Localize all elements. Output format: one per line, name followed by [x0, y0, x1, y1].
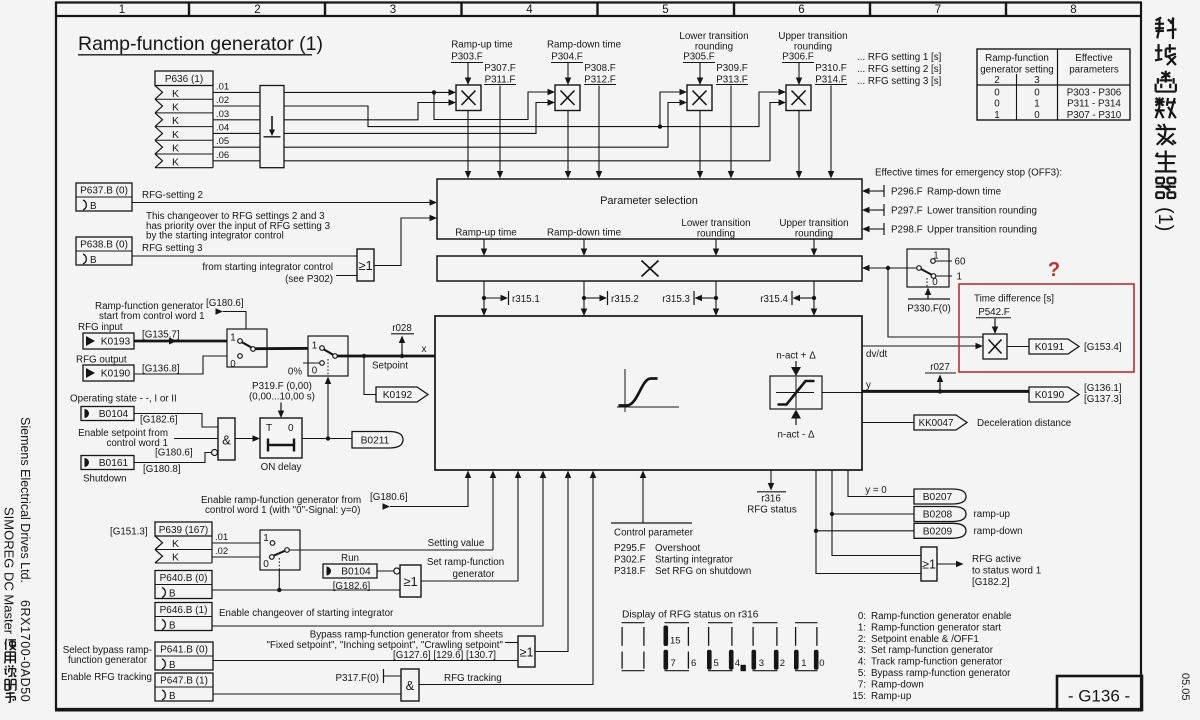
- svg-text:05.05: 05.05: [1179, 673, 1191, 701]
- wire GA to ON delay: [235, 435, 260, 442]
- svg-text:B: B: [90, 255, 97, 266]
- svg-text:Lower transition: Lower transition: [679, 31, 748, 42]
- connector block P639 (167): [155, 522, 212, 564]
- wire G4 to RFG box: [419, 471, 596, 685]
- label G182.6 run: [333, 581, 371, 592]
- svg-text:r315.1: r315.1: [512, 294, 540, 305]
- svg-text:P646.B (1): P646.B (1): [160, 605, 208, 616]
- svg-text:P306.F: P306.F: [782, 52, 814, 63]
- label select bypass: [63, 645, 152, 666]
- svg-text:RFG setting 3: RFG setting 3: [142, 243, 203, 254]
- svg-text:P298.F: P298.F: [891, 224, 923, 235]
- svg-text:K0191: K0191: [1035, 342, 1065, 353]
- wire P646 to RFG box: [212, 471, 546, 627]
- svg-text:Set RFG on shutdown: Set RFG on shutdown: [655, 566, 751, 577]
- svg-text:x: x: [422, 344, 427, 355]
- svg-text:3: 3: [390, 4, 396, 16]
- svg-text:0: 0: [263, 559, 269, 570]
- or-gate G3: [518, 636, 535, 667]
- svg-text:[G153.4]: [G153.4]: [1084, 342, 1122, 353]
- svg-text:1: 1: [801, 658, 806, 669]
- label G180.8: [143, 464, 181, 475]
- label P319.F: [249, 381, 315, 403]
- binector input P640.B (0): [155, 571, 212, 600]
- thick wire S1 to S2: [255, 347, 319, 350]
- svg-text:from starting integrator contr: from starting integrator control: [202, 262, 333, 273]
- or-gate G1: [357, 249, 374, 281]
- label upper transition rounding P306.F P310.F P314.F: [778, 31, 847, 179]
- svg-text:.06: .06: [216, 150, 229, 161]
- svg-text:.05: .05: [216, 136, 229, 147]
- binector output B0209: [914, 523, 1023, 538]
- label RFG input: [78, 322, 180, 341]
- label x: [422, 344, 427, 355]
- svg-text:Parameter selection: Parameter selection: [600, 195, 698, 207]
- wire P319 to ON delay: [278, 403, 285, 419]
- svg-text:15:: 15:: [852, 691, 866, 702]
- svg-text:7: 7: [671, 658, 676, 669]
- svg-text:0: 0: [312, 366, 318, 377]
- multiplier M3 lower transition rounding: [687, 85, 712, 111]
- svg-text:K0193: K0193: [101, 337, 131, 348]
- svg-text:B0208: B0208: [923, 510, 953, 521]
- svg-text:r027: r027: [930, 362, 950, 373]
- svg-text:.02: .02: [215, 546, 228, 557]
- svg-text:r315.4: r315.4: [760, 294, 788, 305]
- svg-text:Ramp-function: Ramp-function: [985, 53, 1049, 64]
- svg-text:Starting integrator: Starting integrator: [655, 555, 734, 566]
- connector output KK0047: [914, 415, 967, 430]
- svg-text:1: 1: [957, 271, 962, 282]
- svg-text:Ramp-up time: Ramp-up time: [455, 228, 517, 239]
- label Run: [341, 553, 359, 564]
- svg-text:start from control word 1: start from control word 1: [99, 311, 205, 322]
- binector input B0104: [81, 407, 134, 421]
- svg-text:Enable changeover of starting: Enable changeover of starting integrator: [219, 608, 394, 619]
- wire control word start to switch S1: [216, 308, 247, 340]
- svg-text:0: 0: [288, 423, 294, 434]
- sheet number box G136: [1057, 676, 1142, 710]
- svg-text:[G136.8]: [G136.8]: [142, 364, 180, 375]
- svg-text:P637.B (0): P637.B (0): [80, 186, 128, 197]
- svg-text:[G180.6]: [G180.6]: [370, 492, 408, 503]
- svg-text:P297.F: P297.F: [891, 205, 923, 216]
- and-gate GA: [218, 418, 235, 460]
- multiplier box (time scaling): [437, 256, 862, 281]
- svg-text:K0190: K0190: [101, 369, 131, 380]
- svg-text:B0211: B0211: [361, 435, 390, 446]
- svg-text:[G137.3]: [G137.3]: [1084, 394, 1122, 405]
- svg-text:?: ?: [1048, 259, 1060, 281]
- wire G3 to RFG box: [535, 471, 571, 652]
- svg-text:Shutdown: Shutdown: [83, 474, 127, 485]
- connector input K0193: [83, 333, 134, 349]
- svg-text:SIMOREG DC Master: SIMOREG DC Master: [2, 507, 17, 635]
- svg-text:Set ramp-function: Set ramp-function: [427, 557, 504, 568]
- svg-text:ramp-down: ramp-down: [974, 526, 1023, 537]
- connector input K0190: [83, 365, 134, 381]
- binector output B0207: [914, 489, 966, 504]
- svg-text:RFG-setting 2: RFG-setting 2: [142, 190, 203, 201]
- wire switch to multiplier box: [862, 265, 917, 272]
- svg-text:ramp-up: ramp-up: [974, 509, 1011, 520]
- svg-text:P302.F: P302.F: [614, 555, 646, 566]
- label RFG active: [972, 554, 1041, 588]
- svg-text:K0190: K0190: [1035, 390, 1065, 401]
- svg-text:Ramp-down: Ramp-down: [871, 679, 924, 690]
- svg-text:3: 3: [1034, 75, 1040, 86]
- svg-text:RFG tracking: RFG tracking: [444, 673, 502, 684]
- wire G1 to parameter selection: [374, 215, 437, 266]
- svg-text:r316: r316: [761, 494, 781, 505]
- svg-text:[G182.2]: [G182.2]: [972, 577, 1010, 588]
- emergency stop effective times P296.F P297.F P298.F: [862, 168, 1062, 236]
- svg-text:B: B: [169, 660, 176, 671]
- label Shutdown: [83, 474, 127, 485]
- label G151.3: [110, 527, 148, 538]
- svg-text:2:: 2:: [858, 634, 866, 645]
- svg-text:P640.B (0): P640.B (0): [160, 573, 208, 584]
- svg-text:by the starting integrator con: by the starting integrator control: [146, 231, 284, 242]
- svg-text:P304.F: P304.F: [551, 52, 583, 63]
- svg-text:P311.F: P311.F: [485, 75, 516, 86]
- wires P636 to selector: [213, 92, 260, 160]
- svg-text:Upper transition rounding: Upper transition rounding: [927, 224, 1037, 235]
- label enable setpoint: [78, 428, 168, 449]
- svg-text:Time difference [s]: Time difference [s]: [974, 294, 1054, 305]
- svg-text:60: 60: [955, 256, 966, 267]
- svg-text:to status word 1: to status word 1: [972, 566, 1041, 577]
- wire RFG-setting 2: [132, 190, 437, 206]
- svg-text:rounding: rounding: [697, 229, 735, 240]
- svg-text:P311 - P314: P311 - P314: [1067, 99, 1121, 110]
- svg-text:≥1: ≥1: [403, 574, 417, 589]
- svg-text:7:: 7:: [858, 679, 866, 690]
- svg-text:0: 0: [230, 359, 236, 370]
- wire ON delay to S2 control: [325, 377, 332, 439]
- svg-text:K: K: [172, 115, 179, 127]
- svg-text:KK0047: KK0047: [919, 418, 954, 429]
- connector output K0190 out: [1029, 387, 1079, 402]
- svg-text:P314.F: P314.F: [815, 75, 847, 86]
- display tap r028: [391, 323, 414, 354]
- svg-text:Track ramp-function generator: Track ramp-function generator: [871, 657, 1003, 668]
- label n-act - delta: [777, 410, 814, 441]
- svg-text:P307 - P310: P307 - P310: [1067, 110, 1122, 121]
- svg-text:[G180.6]: [G180.6]: [155, 448, 193, 459]
- svg-text:≥1: ≥1: [520, 646, 534, 660]
- binector output B0208: [914, 507, 1011, 522]
- svg-text:r315.3: r315.3: [662, 294, 690, 305]
- svg-text:0: 0: [1034, 88, 1040, 99]
- svg-text:parameters: parameters: [1069, 65, 1119, 76]
- connector output K0191: [1029, 339, 1079, 354]
- svg-text:Lower transition: Lower transition: [681, 218, 750, 229]
- svg-text:T: T: [266, 423, 272, 434]
- svg-text:RFG active: RFG active: [972, 554, 1022, 565]
- svg-text:P307.F: P307.F: [484, 63, 516, 74]
- binector input P637.B (0): [76, 183, 132, 212]
- labels RFG setting 1-3: [857, 52, 942, 87]
- wire ramp-down to B0209: [814, 470, 914, 533]
- binector output B0211: [352, 432, 403, 449]
- svg-text:y: y: [866, 380, 871, 391]
- connector block P636 (1) with K inputs .01-.06: [155, 71, 213, 168]
- label ON delay: [261, 462, 302, 473]
- svg-text:Bypass ramp-function generator: Bypass ramp-function generator: [871, 668, 1011, 679]
- wires parameter selection to multiplier box: [481, 239, 818, 256]
- note changeover priority: [146, 211, 331, 242]
- binector input P647.B (1): [155, 673, 213, 702]
- svg-text:1:: 1:: [858, 622, 866, 633]
- svg-text:15: 15: [670, 635, 681, 646]
- svg-text:K0192: K0192: [383, 390, 413, 401]
- s-curve symbol: [617, 369, 679, 412]
- label ramp-down time P304.F P308.F P312.F: [547, 40, 622, 179]
- svg-text:5: 5: [714, 658, 719, 669]
- svg-text:P319.F (0,00): P319.F (0,00): [252, 381, 312, 392]
- svg-text:P296.F: P296.F: [891, 186, 923, 197]
- thick output wire y: [862, 380, 1029, 391]
- svg-text:K: K: [172, 538, 179, 550]
- svg-text:K: K: [172, 552, 179, 564]
- bottom right edition 05.05: [1179, 673, 1191, 701]
- svg-text:&: &: [222, 433, 231, 448]
- multiplier M1 ramp-up time: [456, 85, 481, 111]
- svg-text:P318.F: P318.F: [614, 566, 646, 577]
- switch 60/1 time base: [907, 249, 966, 288]
- svg-text:Setting value: Setting value: [428, 538, 485, 549]
- svg-text:n-act + Δ: n-act + Δ: [776, 351, 816, 362]
- or-gate G2: [400, 565, 421, 597]
- parameter selection box: [437, 179, 862, 240]
- svg-text:Ramp-down time: Ramp-down time: [547, 228, 622, 239]
- svg-text:0:: 0:: [858, 611, 866, 622]
- wire P640 to G2: [212, 589, 400, 591]
- svg-text:dv/dt: dv/dt: [866, 349, 888, 360]
- svg-text:K: K: [172, 88, 179, 100]
- thick setpoint wire S2 to RFG box: [337, 354, 435, 358]
- label RFG tracking: [444, 673, 502, 684]
- svg-text:B0104: B0104: [99, 409, 129, 420]
- multiplier M4 upper transition rounding: [786, 85, 811, 111]
- labels G136.1 G137.3: [1084, 383, 1122, 405]
- svg-text:Setpoint enable & /OFF1: Setpoint enable & /OFF1: [871, 634, 979, 645]
- svg-text:8: 8: [1070, 4, 1076, 16]
- svg-text:6: 6: [691, 658, 696, 669]
- svg-text:≥1: ≥1: [358, 258, 372, 273]
- multiplier M2 ramp-down time: [555, 85, 580, 111]
- svg-text:RFG status: RFG status: [747, 505, 797, 516]
- label enable RFG from control word 1: [201, 492, 408, 516]
- svg-text:y = 0: y = 0: [865, 485, 887, 496]
- svg-text:P641.B (0): P641.B (0): [160, 645, 208, 656]
- label from starting integrator control: [202, 262, 357, 285]
- svg-text:Ramp-function generator start: Ramp-function generator start: [871, 622, 1001, 633]
- svg-text:RFG input: RFG input: [78, 322, 123, 333]
- svg-text:[G182.6]: [G182.6]: [140, 415, 178, 426]
- binector input P646.B (1): [155, 603, 212, 632]
- svg-text:5: 5: [662, 4, 668, 16]
- wires to G5: [816, 514, 921, 574]
- wires multipliers to parameter selection: [465, 111, 803, 179]
- svg-text:- G136 -: - G136 -: [1068, 687, 1130, 706]
- ON delay block T 0: [260, 418, 302, 458]
- selector block (lowest value select): [260, 86, 284, 168]
- svg-text:6RX1700-0AD50: 6RX1700-0AD50: [18, 600, 32, 702]
- svg-text:P310.F: P310.F: [815, 63, 847, 74]
- label 0%: [288, 363, 320, 378]
- svg-text:K: K: [172, 156, 179, 168]
- svg-text:1: 1: [994, 110, 999, 121]
- svg-text:[G151.3]: [G151.3]: [110, 527, 148, 538]
- svg-text:.02: .02: [216, 95, 229, 106]
- binector input P638.B (0): [76, 237, 132, 266]
- svg-text:1: 1: [263, 533, 269, 544]
- table ramp-function generator setting / effective parameters: [977, 49, 1130, 121]
- svg-text:P542.F: P542.F: [978, 307, 1010, 318]
- svg-text:0: 0: [1034, 110, 1040, 121]
- svg-text:Ramp-down time: Ramp-down time: [927, 186, 1002, 197]
- svg-text:2: 2: [254, 4, 260, 16]
- svg-text:(1): (1): [1154, 207, 1176, 231]
- wire G5 RFG active: [937, 561, 964, 568]
- svg-text:Setpoint: Setpoint: [372, 361, 408, 372]
- labels .01-.06: [216, 81, 229, 160]
- labels .01 .02: [215, 532, 228, 557]
- svg-text:P309.F: P309.F: [716, 63, 748, 74]
- svg-text:B0209: B0209: [923, 526, 953, 537]
- svg-text:P312.F: P312.F: [584, 75, 616, 86]
- svg-text:K: K: [172, 102, 179, 114]
- svg-text:7: 7: [935, 4, 941, 16]
- label set ramp-function generator: [427, 557, 504, 580]
- svg-text:P308.F: P308.F: [584, 63, 616, 74]
- svg-text:Lower transition rounding: Lower transition rounding: [927, 205, 1037, 216]
- svg-text:P305.F: P305.F: [683, 52, 715, 63]
- svg-text:≥1: ≥1: [922, 558, 936, 572]
- switch S1 RFG input select: [227, 329, 267, 370]
- svg-text:generator setting: generator setting: [980, 65, 1054, 76]
- svg-text:rounding: rounding: [795, 229, 833, 240]
- svg-text:B: B: [169, 589, 176, 600]
- label time difference P542.F: [974, 294, 1054, 319]
- wire B0104 to AND: [134, 414, 218, 428]
- routing wires selector to multipliers: [284, 89, 786, 161]
- svg-text:4: 4: [526, 4, 533, 16]
- svg-text:Control parameter: Control parameter: [614, 528, 694, 539]
- svg-text:Upper transition: Upper transition: [778, 31, 847, 42]
- switch S3 setting value select: [260, 530, 300, 570]
- and-gate G4: [401, 669, 419, 701]
- label lower transition rounding P305.F P309.F P313.F: [679, 31, 748, 179]
- svg-text:Ramp-up time: Ramp-up time: [451, 40, 513, 51]
- svg-text:Ramp-function generator enable: Ramp-function generator enable: [871, 611, 1012, 622]
- label enable RFG tracking: [61, 672, 152, 683]
- label G180.6 mid: [155, 448, 193, 459]
- svg-text:3: 3: [759, 658, 764, 669]
- svg-text:[G180.6]: [G180.6]: [206, 298, 244, 309]
- wire setting value: [289, 471, 496, 551]
- svg-text:0: 0: [994, 99, 1000, 110]
- wire limiter to box edge: [822, 392, 862, 394]
- svg-text:&: &: [406, 678, 415, 693]
- wire switch branch to P542 multiplier: [888, 268, 983, 337]
- svg-text:[G180.8]: [G180.8]: [143, 464, 181, 475]
- or-gate G5: [921, 547, 937, 581]
- sheet title: [78, 33, 323, 55]
- svg-text:Upper transition: Upper transition: [779, 218, 848, 229]
- svg-text:0: 0: [819, 658, 824, 669]
- label enable changeover: [219, 608, 394, 619]
- wire B0161 to AND inverted: [134, 450, 218, 463]
- svg-text:P639 (167): P639 (167): [159, 525, 208, 536]
- svg-text:B: B: [169, 621, 176, 632]
- red annotation rectangle: [959, 284, 1134, 372]
- svg-text:P317.F(0): P317.F(0): [335, 673, 379, 684]
- svg-text:.01: .01: [216, 81, 229, 92]
- svg-text:ON delay: ON delay: [261, 462, 302, 473]
- label P317.F(0): [335, 669, 401, 684]
- svg-text:generator: generator: [453, 569, 496, 580]
- svg-text:RFG output: RFG output: [76, 355, 127, 366]
- svg-text:1: 1: [230, 333, 235, 344]
- svg-text:4: 4: [735, 658, 740, 669]
- svg-text:... RFG setting 1 [s]: ... RFG setting 1 [s]: [857, 52, 942, 63]
- svg-text:Effective times for emergency: Effective times for emergency stop (OFF3…: [875, 168, 1062, 179]
- svg-text:n-act - Δ: n-act - Δ: [777, 430, 814, 441]
- wire enable setpoint to AND: [174, 438, 218, 440]
- switch S2 setpoint enable: [308, 336, 348, 377]
- svg-text:K: K: [172, 143, 179, 155]
- svg-text:1: 1: [119, 4, 125, 16]
- svg-text:Overshoot: Overshoot: [655, 543, 700, 554]
- connector output K0192: [376, 387, 428, 402]
- svg-text:[G136.1]: [G136.1]: [1084, 383, 1122, 394]
- svg-text:B: B: [90, 201, 97, 212]
- svg-text:Run: Run: [341, 553, 359, 564]
- svg-text:r028: r028: [392, 323, 412, 334]
- svg-text:1: 1: [312, 341, 317, 352]
- wire bypass note to G3: [505, 642, 518, 644]
- label G182.6: [140, 415, 178, 426]
- legend of RFG status bits: [852, 611, 1012, 702]
- svg-text:Display of RFG status on r316: Display of RFG status on r316: [622, 610, 759, 621]
- binector input B0104 run: [323, 564, 377, 578]
- svg-text:Enable RFG tracking: Enable RFG tracking: [61, 672, 152, 683]
- svg-text:Operating state - -, I or II: Operating state - -, I or II: [70, 394, 177, 405]
- svg-text:... RFG setting 2 [s]: ... RFG setting 2 [s]: [857, 64, 942, 75]
- wire P330 to switch: [907, 288, 951, 315]
- wire RFG setting 3: [132, 243, 357, 256]
- wire y=0 to B0207: [848, 470, 914, 497]
- display taps r315.1-r315.4 and wires into RFG: [481, 281, 818, 316]
- ramp-function generator main box: [435, 316, 862, 470]
- wire M5 to K0191: [1007, 346, 1029, 348]
- tracking limiter block: [770, 376, 822, 409]
- svg-text:[G127.6] [129.6] [130.7]: [G127.6] [129.6] [130.7]: [393, 650, 496, 661]
- wire K0190 to S1: [134, 356, 236, 374]
- label n-act + delta: [776, 351, 816, 377]
- svg-text:B0104: B0104: [341, 567, 371, 578]
- wire S3 control to P640: [277, 570, 281, 592]
- svg-text:Ramp-up: Ramp-up: [871, 691, 912, 702]
- right margin rotated chinese title: [1154, 17, 1177, 231]
- wire ramp-up to B0208: [830, 470, 914, 516]
- seven segment display of r316: [622, 610, 825, 672]
- svg-text:P330.F(0): P330.F(0): [907, 304, 951, 315]
- red question mark: [1048, 259, 1060, 281]
